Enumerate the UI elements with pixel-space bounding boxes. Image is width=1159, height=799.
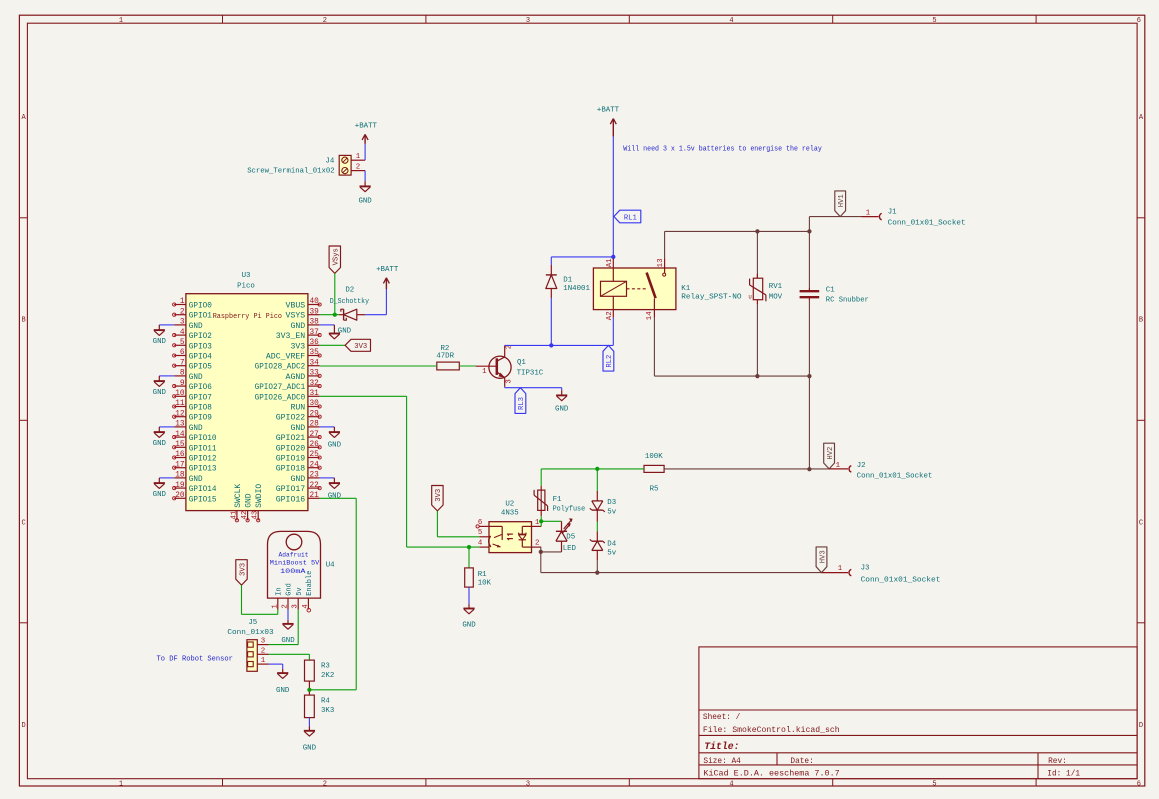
connector J5 Conn_01x03 bbox=[227, 619, 273, 671]
ground (J4) bbox=[358, 181, 372, 206]
ground (U3 pin 18) bbox=[153, 478, 167, 499]
LED D5 bbox=[556, 518, 577, 553]
svg-text:MOV: MOV bbox=[769, 293, 783, 301]
wire bbox=[541, 551, 562, 553]
fuse F1 Polyfuse bbox=[534, 486, 585, 516]
wire bbox=[159, 324, 174, 326]
svg-text:GND: GND bbox=[153, 491, 167, 499]
svg-text:3: 3 bbox=[292, 604, 300, 608]
svg-text:3V3: 3V3 bbox=[435, 489, 443, 502]
svg-text:GND: GND bbox=[328, 492, 342, 500]
svg-text:+BATT: +BATT bbox=[376, 266, 399, 274]
svg-text:D3: D3 bbox=[607, 499, 616, 507]
svg-text:GND: GND bbox=[189, 322, 203, 331]
svg-text:Conn_01x01_Socket: Conn_01x01_Socket bbox=[861, 576, 941, 584]
ground (R4) bbox=[303, 727, 317, 753]
svg-text:GPIO18: GPIO18 bbox=[276, 465, 306, 474]
svg-text:1: 1 bbox=[261, 657, 266, 665]
svg-text:GPIO22: GPIO22 bbox=[276, 414, 306, 423]
svg-text:GPIO8: GPIO8 bbox=[189, 404, 212, 413]
wire bbox=[364, 171, 366, 182]
svg-text:RV1: RV1 bbox=[769, 283, 783, 291]
global label HV3 bbox=[816, 547, 827, 573]
svg-text:GND: GND bbox=[245, 493, 254, 508]
svg-text:3V3: 3V3 bbox=[354, 343, 367, 351]
svg-text:5: 5 bbox=[932, 780, 936, 788]
svg-text:C: C bbox=[21, 520, 25, 528]
svg-text:6: 6 bbox=[478, 519, 482, 527]
ground (R1) bbox=[462, 604, 476, 630]
svg-text:4: 4 bbox=[729, 17, 733, 25]
svg-text:4: 4 bbox=[180, 329, 185, 337]
global label HV1 bbox=[835, 191, 846, 217]
wire bbox=[540, 469, 542, 486]
junction bbox=[549, 343, 553, 347]
svg-text:R5: R5 bbox=[650, 486, 659, 494]
svg-text:43: 43 bbox=[252, 511, 260, 520]
svg-text:1: 1 bbox=[482, 368, 487, 376]
svg-text:U: U bbox=[749, 295, 752, 301]
svg-text:3K3: 3K3 bbox=[321, 707, 334, 715]
svg-text:GND: GND bbox=[462, 622, 476, 630]
svg-text:33: 33 bbox=[310, 370, 320, 378]
wire bbox=[159, 477, 174, 479]
svg-text:R3: R3 bbox=[321, 662, 330, 670]
svg-text:6: 6 bbox=[1137, 780, 1141, 788]
svg-text:U3: U3 bbox=[242, 272, 251, 280]
svg-text:3: 3 bbox=[180, 319, 185, 327]
svg-text:D4: D4 bbox=[607, 541, 616, 549]
wire bbox=[365, 289, 386, 315]
svg-text:GND: GND bbox=[189, 475, 203, 484]
wire bbox=[540, 516, 542, 521]
svg-text:+BATT: +BATT bbox=[355, 122, 378, 130]
wire bbox=[808, 231, 810, 288]
svg-text:22: 22 bbox=[310, 482, 320, 490]
svg-text:Polyfuse: Polyfuse bbox=[553, 505, 586, 513]
svg-text:2: 2 bbox=[261, 647, 265, 655]
wire bbox=[809, 217, 861, 232]
svg-text:14: 14 bbox=[175, 431, 185, 439]
svg-text:ADC_VREF: ADC_VREF bbox=[266, 353, 305, 362]
global label RL3 bbox=[515, 388, 526, 414]
junction bbox=[539, 519, 543, 523]
svg-text:J1: J1 bbox=[888, 209, 897, 217]
wire bbox=[808, 376, 810, 469]
svg-text:RL3: RL3 bbox=[518, 397, 526, 410]
svg-text:16: 16 bbox=[175, 451, 185, 459]
svg-text:34: 34 bbox=[310, 359, 320, 367]
svg-text:B: B bbox=[1139, 317, 1143, 325]
svg-text:GPIO5: GPIO5 bbox=[189, 363, 212, 372]
svg-text:1: 1 bbox=[271, 604, 279, 609]
svg-text:Conn_01x01_Socket: Conn_01x01_Socket bbox=[888, 219, 966, 227]
svg-text:1: 1 bbox=[119, 17, 123, 25]
optocoupler U2 4N35 bbox=[476, 501, 541, 553]
svg-text:30: 30 bbox=[310, 400, 320, 408]
svg-text:Screw_Terminal_01x02: Screw_Terminal_01x02 bbox=[247, 168, 334, 176]
svg-text:40: 40 bbox=[310, 298, 320, 306]
svg-text:J4: J4 bbox=[325, 158, 334, 166]
svg-text:36: 36 bbox=[310, 339, 320, 347]
svg-text:GND: GND bbox=[338, 328, 352, 336]
svg-text:Gnd: Gnd bbox=[286, 583, 294, 596]
svg-text:5: 5 bbox=[932, 17, 936, 25]
svg-text:LED: LED bbox=[563, 545, 577, 553]
svg-text:10K: 10K bbox=[478, 580, 492, 588]
wire bbox=[320, 314, 339, 316]
svg-text:24: 24 bbox=[310, 461, 320, 469]
svg-text:3: 3 bbox=[261, 638, 265, 646]
svg-text:Adafruit: Adafruit bbox=[279, 551, 309, 559]
svg-text:11: 11 bbox=[175, 400, 185, 408]
svg-text:U2: U2 bbox=[505, 501, 514, 509]
svg-text:VSYS: VSYS bbox=[286, 312, 306, 321]
svg-text:21: 21 bbox=[310, 492, 320, 500]
junction bbox=[807, 467, 811, 471]
svg-text:D_Schottky: D_Schottky bbox=[330, 298, 370, 306]
svg-text:K1: K1 bbox=[681, 285, 690, 293]
svg-text:C1: C1 bbox=[826, 287, 835, 295]
svg-text:GPIO10: GPIO10 bbox=[189, 434, 217, 443]
svg-text:D: D bbox=[21, 722, 25, 730]
svg-text:GPIO21: GPIO21 bbox=[276, 434, 306, 443]
svg-text:+BATT: +BATT bbox=[597, 107, 620, 115]
svg-text:7: 7 bbox=[180, 359, 185, 367]
svg-text:GND: GND bbox=[189, 373, 203, 382]
wire bbox=[551, 257, 613, 265]
wire bbox=[320, 324, 335, 326]
junction bbox=[333, 313, 337, 317]
svg-text:1N4001: 1N4001 bbox=[563, 285, 590, 293]
svg-text:3: 3 bbox=[526, 17, 530, 25]
svg-text:3V3: 3V3 bbox=[290, 342, 305, 351]
svg-text:Q1: Q1 bbox=[517, 359, 526, 367]
svg-text:D: D bbox=[1139, 722, 1143, 730]
svg-text:GND: GND bbox=[290, 424, 305, 433]
wire bbox=[320, 365, 437, 367]
wire bbox=[242, 585, 278, 614]
wire bbox=[320, 396, 480, 547]
svg-text:MiniBoost 5V: MiniBoost 5V bbox=[270, 560, 320, 568]
svg-text:GPIO26_ADC0: GPIO26_ADC0 bbox=[255, 393, 306, 402]
ground (U3 pin 13) bbox=[153, 427, 167, 448]
transistor Q1 TIP31C bbox=[476, 345, 544, 387]
svg-text:5v: 5v bbox=[607, 509, 616, 517]
ground (U3 pin 23) bbox=[328, 478, 342, 501]
resistor R5 100K bbox=[644, 453, 664, 493]
wire bbox=[541, 572, 822, 574]
wire bbox=[159, 426, 174, 428]
power +BATT (K1) bbox=[597, 107, 620, 137]
svg-text:GND: GND bbox=[276, 687, 290, 695]
wire bbox=[612, 137, 614, 257]
svg-text:1: 1 bbox=[836, 462, 841, 470]
svg-text:GND: GND bbox=[555, 405, 569, 413]
ground (U4) bbox=[281, 620, 295, 645]
svg-text:GND: GND bbox=[153, 440, 167, 448]
svg-text:J5: J5 bbox=[248, 619, 257, 627]
svg-text:HV1: HV1 bbox=[838, 194, 846, 207]
wire bbox=[664, 231, 666, 258]
wire bbox=[287, 610, 289, 620]
power +BATT (D2) bbox=[376, 266, 399, 289]
svg-text:39: 39 bbox=[310, 308, 320, 316]
wire bbox=[612, 318, 614, 346]
svg-text:Enable: Enable bbox=[306, 571, 314, 596]
svg-text:2: 2 bbox=[282, 604, 290, 608]
power label 3V3 (U4) bbox=[236, 560, 248, 585]
wire bbox=[308, 718, 310, 727]
wire bbox=[664, 468, 829, 470]
svg-text:1: 1 bbox=[119, 780, 123, 788]
wire bbox=[437, 511, 479, 537]
svg-text:R4: R4 bbox=[321, 697, 330, 705]
wire bbox=[561, 388, 563, 391]
wire bbox=[269, 610, 299, 645]
wire bbox=[364, 144, 366, 160]
svg-text:GPIO12: GPIO12 bbox=[189, 455, 217, 464]
svg-text:GPIO9: GPIO9 bbox=[189, 414, 212, 423]
svg-text:GND: GND bbox=[358, 198, 372, 206]
svg-text:D1: D1 bbox=[563, 277, 572, 285]
svg-text:GPIO17: GPIO17 bbox=[276, 485, 306, 494]
relay K1 Relay_SPST-NO bbox=[593, 258, 742, 320]
wire bbox=[505, 386, 562, 389]
svg-text:Relay_SPST-NO: Relay_SPST-NO bbox=[681, 294, 742, 302]
ground (U3 pin 28) bbox=[328, 427, 342, 450]
wire bbox=[468, 587, 470, 604]
svg-text:23: 23 bbox=[310, 472, 320, 480]
title block bbox=[699, 647, 1137, 779]
global label VSys bbox=[329, 246, 341, 273]
svg-text:GPIO19: GPIO19 bbox=[276, 455, 306, 464]
svg-text:4: 4 bbox=[302, 604, 310, 609]
svg-text:27: 27 bbox=[310, 431, 320, 439]
svg-text:RC Snubber: RC Snubber bbox=[826, 297, 869, 305]
svg-text:File: SmokeControl.kicad_sch: File: SmokeControl.kicad_sch bbox=[703, 727, 840, 735]
wire bbox=[468, 547, 470, 568]
svg-text:8: 8 bbox=[180, 370, 185, 378]
svg-text:28: 28 bbox=[310, 421, 320, 429]
power +BATT (J4) bbox=[355, 122, 378, 143]
svg-text:4: 4 bbox=[729, 780, 733, 788]
svg-text:38: 38 bbox=[310, 319, 320, 327]
svg-text:F1: F1 bbox=[553, 496, 562, 504]
resistor R3 2K2 bbox=[305, 660, 335, 681]
svg-text:Conn_01x01_Socket: Conn_01x01_Socket bbox=[857, 472, 933, 480]
wire bbox=[808, 301, 810, 377]
resistor R1 10K bbox=[465, 568, 492, 588]
junction bbox=[755, 374, 759, 378]
svg-text:9: 9 bbox=[180, 380, 185, 388]
zener D3 5v bbox=[590, 491, 617, 522]
svg-text:Date:: Date: bbox=[790, 758, 813, 766]
svg-text:4: 4 bbox=[478, 540, 483, 548]
svg-text:SWCLK: SWCLK bbox=[234, 484, 243, 508]
note bbox=[157, 656, 233, 664]
wire bbox=[459, 365, 475, 367]
connector J3 Conn_01x01_Socket bbox=[822, 564, 941, 584]
svg-text:1: 1 bbox=[838, 565, 843, 573]
wire bbox=[320, 426, 335, 428]
svg-text:J3: J3 bbox=[861, 564, 870, 572]
ground (J5) bbox=[276, 669, 290, 695]
wire bbox=[334, 273, 336, 314]
svg-text:2: 2 bbox=[323, 780, 327, 788]
svg-text:18: 18 bbox=[175, 472, 185, 480]
varistor RV1 MOV bbox=[749, 274, 783, 304]
svg-text:5v: 5v bbox=[607, 550, 616, 558]
svg-text:Raspberry Pi Pico: Raspberry Pi Pico bbox=[213, 313, 282, 321]
svg-text:GPIO3: GPIO3 bbox=[189, 342, 212, 351]
resistor R2 47DR bbox=[436, 345, 459, 370]
svg-text:1: 1 bbox=[535, 519, 540, 527]
svg-text:GPIO0: GPIO0 bbox=[189, 302, 212, 311]
junction bbox=[595, 467, 599, 471]
svg-text:AGND: AGND bbox=[286, 373, 306, 382]
svg-text:Title:: Title: bbox=[704, 741, 739, 752]
svg-text:Id: 1/1: Id: 1/1 bbox=[1047, 770, 1080, 778]
global label RL1 bbox=[614, 210, 641, 223]
svg-text:13: 13 bbox=[175, 421, 185, 429]
global label RL2 bbox=[603, 345, 614, 371]
svg-text:31: 31 bbox=[310, 390, 320, 398]
svg-text:GPIO15: GPIO15 bbox=[189, 495, 217, 504]
svg-text:20: 20 bbox=[175, 492, 185, 500]
wire bbox=[541, 468, 644, 470]
svg-text:GPIO14: GPIO14 bbox=[189, 485, 217, 494]
svg-text:5: 5 bbox=[180, 339, 185, 347]
IC U3 Raspberry Pi Pico bbox=[173, 272, 322, 522]
connector J4 Screw_Terminal_01x02 bbox=[247, 153, 365, 175]
wire bbox=[269, 664, 283, 669]
junction bbox=[807, 374, 811, 378]
svg-text:19: 19 bbox=[175, 482, 185, 490]
svg-text:C: C bbox=[1139, 520, 1143, 528]
svg-text:VBUS: VBUS bbox=[286, 302, 306, 311]
svg-text:Conn_01x03: Conn_01x03 bbox=[227, 629, 273, 637]
wire bbox=[653, 318, 655, 376]
svg-text:Will need 3 x 1.5v batteries t: Will need 3 x 1.5v batteries to energise… bbox=[623, 146, 822, 154]
connector J2 Conn_01x01_Socket bbox=[829, 462, 932, 480]
svg-text:R1: R1 bbox=[478, 571, 487, 579]
svg-text:GPIO20: GPIO20 bbox=[276, 444, 306, 453]
junction bbox=[307, 688, 311, 692]
svg-text:100mA: 100mA bbox=[280, 568, 307, 576]
svg-text:3: 3 bbox=[506, 379, 514, 383]
svg-text:GPIO7: GPIO7 bbox=[189, 393, 212, 402]
svg-text:RUN: RUN bbox=[290, 404, 305, 413]
wire bbox=[654, 375, 809, 377]
wire bbox=[505, 344, 614, 346]
svg-text:1: 1 bbox=[180, 298, 185, 306]
diode D1 1N4001 bbox=[546, 265, 591, 298]
svg-text:2: 2 bbox=[323, 17, 327, 25]
zener D4 5v bbox=[590, 532, 617, 561]
svg-text:GND: GND bbox=[189, 424, 203, 433]
svg-text:RL1: RL1 bbox=[624, 214, 637, 222]
svg-text:KiCad E.D.A. eeschema 7.0.7: KiCad E.D.A. eeschema 7.0.7 bbox=[703, 770, 840, 778]
svg-text:GPIO4: GPIO4 bbox=[189, 353, 212, 362]
svg-text:17: 17 bbox=[175, 461, 185, 469]
connector J1 Conn_01x01_Socket bbox=[862, 209, 966, 228]
wire bbox=[159, 375, 174, 377]
svg-text:3V3_EN: 3V3_EN bbox=[276, 332, 306, 341]
svg-text:SWDIO: SWDIO bbox=[255, 484, 264, 508]
svg-text:GND: GND bbox=[281, 637, 295, 645]
ground (U3 pin 8) bbox=[153, 376, 167, 397]
svg-text:2: 2 bbox=[535, 540, 539, 548]
wire bbox=[320, 344, 346, 346]
svg-text:3: 3 bbox=[526, 780, 530, 788]
svg-text:GND: GND bbox=[153, 338, 167, 346]
svg-text:5v: 5v bbox=[296, 587, 304, 595]
svg-text:2: 2 bbox=[180, 308, 185, 316]
svg-text:GPIO6: GPIO6 bbox=[189, 383, 212, 392]
resistor R4 3K3 bbox=[305, 695, 335, 718]
svg-text:GPIO16: GPIO16 bbox=[276, 495, 306, 504]
svg-text:To DF Robot Sensor: To DF Robot Sensor bbox=[157, 656, 233, 664]
junction bbox=[467, 545, 471, 549]
svg-text:J2: J2 bbox=[857, 462, 866, 470]
note bbox=[623, 146, 822, 154]
svg-text:D2: D2 bbox=[345, 287, 354, 295]
svg-text:GPIO13: GPIO13 bbox=[189, 465, 217, 474]
svg-text:B: B bbox=[21, 317, 25, 325]
svg-text:GPIO28_ADC2: GPIO28_ADC2 bbox=[255, 363, 306, 372]
svg-text:5: 5 bbox=[478, 529, 482, 537]
junction bbox=[595, 571, 599, 575]
svg-text:3V3: 3V3 bbox=[239, 563, 247, 576]
junction bbox=[755, 229, 759, 233]
svg-text:GND: GND bbox=[328, 441, 342, 449]
svg-text:Pico: Pico bbox=[237, 283, 255, 291]
wire bbox=[596, 469, 598, 491]
ground (U3 pin 38) bbox=[329, 325, 352, 339]
svg-text:GPIO2: GPIO2 bbox=[189, 332, 212, 341]
ground (Q1) bbox=[555, 390, 569, 413]
svg-text:2: 2 bbox=[356, 164, 360, 172]
wire bbox=[540, 547, 542, 552]
diode D2 D_Schottky bbox=[330, 287, 370, 321]
svg-text:32: 32 bbox=[310, 380, 320, 388]
svg-text:D5: D5 bbox=[566, 534, 575, 542]
svg-text:6: 6 bbox=[180, 349, 185, 357]
svg-text:GND: GND bbox=[303, 745, 317, 753]
junction bbox=[539, 550, 543, 554]
svg-text:41: 41 bbox=[230, 510, 238, 519]
svg-text:GND: GND bbox=[153, 389, 167, 397]
wire bbox=[309, 689, 356, 691]
svg-text:2K2: 2K2 bbox=[321, 672, 334, 680]
svg-text:RL2: RL2 bbox=[606, 355, 614, 368]
svg-text:47DR: 47DR bbox=[436, 353, 454, 361]
svg-text:12: 12 bbox=[175, 410, 185, 418]
wire bbox=[612, 257, 614, 258]
svg-text:1: 1 bbox=[356, 153, 361, 161]
svg-text:1: 1 bbox=[866, 210, 871, 218]
svg-text:26: 26 bbox=[310, 441, 320, 449]
wire bbox=[665, 230, 810, 232]
svg-text:Size: A4: Size: A4 bbox=[703, 758, 741, 766]
svg-text:100K: 100K bbox=[645, 453, 663, 461]
svg-text:GPIO11: GPIO11 bbox=[189, 444, 217, 453]
svg-text:25: 25 bbox=[310, 451, 320, 459]
junction bbox=[611, 255, 615, 259]
svg-text:GPIO27_ADC1: GPIO27_ADC1 bbox=[255, 383, 306, 392]
wire bbox=[596, 522, 598, 532]
